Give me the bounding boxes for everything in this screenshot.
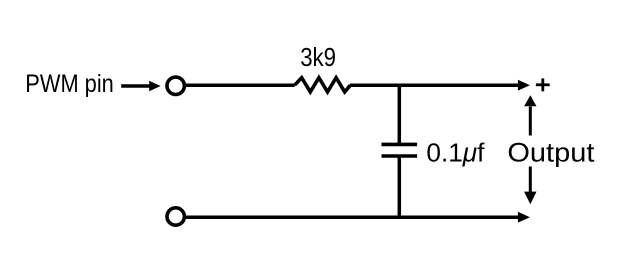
output span arrow (up segment) [524, 95, 536, 135]
terminal (top input circle) [167, 77, 184, 94]
terminal (bottom circle) [167, 208, 184, 225]
output span arrow (down segment) [524, 167, 536, 205]
svg-text:3k9: 3k9 [300, 44, 336, 72]
resistor 3k9 [295, 78, 351, 92]
plus label [536, 78, 550, 91]
wire (junction node down to capacitor) [398, 85, 402, 144]
arrowhead (bottom output) [518, 212, 530, 223]
wire (top rail: circle to resistor) [186, 83, 295, 87]
svg-text:PWM pin: PWM pin [25, 70, 114, 98]
wire (top rail: resistor to output arrow) [350, 83, 519, 87]
wire (capacitor to bottom rail) [398, 156, 402, 217]
capacitor C (top plate) [382, 143, 418, 147]
svg-text:Output: Output [507, 137, 595, 167]
capacitor C (bottom plate) [382, 154, 418, 158]
input arrow [121, 81, 160, 92]
svg-text:0.1μf: 0.1μf [426, 137, 485, 167]
wire (bottom rail) [186, 215, 519, 219]
arrowhead (top output) [518, 80, 530, 91]
